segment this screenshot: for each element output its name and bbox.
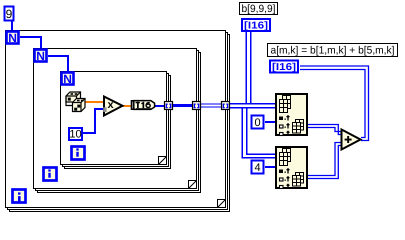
label b[9,9,9] — [240, 3, 278, 16]
wire branch down to index node 2 (3D array) — [242, 107, 244, 159]
wire multiply to I16 (orange scalar) — [122, 105, 131, 107]
wire dice to multiply (orange scalar) — [84, 101, 104, 103]
svg-text:9: 9 — [6, 7, 13, 21]
svg-text:x: x — [107, 99, 114, 111]
svg-text:4: 4 — [254, 162, 260, 174]
wire index node 1 to add (2D array) — [308, 125, 341, 135]
indicator [I16] for a — [270, 61, 298, 74]
wire 9 to N1 — [11, 20, 13, 30]
constant 10 — [69, 128, 82, 141]
add node — [342, 130, 361, 150]
for loop 3 (inner) stacked sheets — [63, 74, 171, 169]
multiply node — [103, 97, 122, 116]
page curl loop 1 — [218, 200, 226, 208]
page curl loop 2 — [189, 181, 197, 189]
I16 conversion node — [131, 100, 155, 110]
count terminal N1 — [7, 31, 19, 45]
svg-text:N: N — [36, 49, 45, 63]
wire N2 to N3 — [48, 55, 69, 57]
wire index node 2 to add (2D array) — [308, 143, 341, 179]
iteration terminal i3 — [72, 147, 85, 160]
svg-text:b[9,9,9]: b[9,9,9] — [242, 3, 276, 15]
2D output grid icon — [293, 173, 304, 187]
index terminal row 2 — [280, 124, 290, 129]
for loop 1 (outer) stacked sheets — [8, 33, 230, 212]
for loop 2 (middle) frame — [34, 49, 197, 189]
count terminal N2 — [35, 49, 47, 63]
for loop 2 (middle) stacked sheets — [36, 51, 201, 193]
index terminal row 2 — [280, 177, 290, 182]
3D array grid icon — [280, 149, 291, 166]
wire N1 to N2 — [20, 36, 42, 38]
svg-text:[I16]: [I16] — [272, 62, 296, 73]
constant 9 — [5, 7, 14, 22]
tunnel on loop 3 — [165, 102, 173, 110]
index terminal row 3 — [280, 184, 290, 189]
svg-text:[I16]: [I16] — [244, 21, 268, 32]
index terminal row 1 — [279, 169, 289, 174]
for loop 1 (outer) frame — [6, 31, 226, 208]
label a[m,k] formula — [268, 44, 398, 57]
index terminal row 3 — [280, 131, 290, 136]
wire branch up to b indicator (3D array) — [246, 32, 248, 105]
index array node 1 — [276, 94, 307, 136]
random number dice icon — [66, 92, 85, 112]
svg-text:0: 0 — [254, 117, 260, 129]
2D output grid icon — [293, 120, 304, 134]
3D array grid icon — [280, 96, 291, 113]
index terminal row 1 — [279, 116, 289, 121]
tunnel on loop 2 — [193, 102, 201, 110]
constant 4 — [252, 161, 264, 175]
wire tunnel1 to tunnel2 (1D array) — [168, 104, 197, 107]
wire tunnel2 to tunnel3 (2D array) — [197, 103, 226, 104]
index array node 2 — [276, 147, 307, 189]
iteration terminal i2 — [44, 168, 57, 181]
svg-text:N: N — [8, 31, 17, 45]
wire add to a[m,k] indicator (2D array) — [300, 66, 369, 141]
for loop 3 (inner) frame — [61, 72, 167, 165]
constant 0 — [252, 116, 264, 130]
coercion dot — [103, 107, 106, 112]
iteration terminal i1 — [13, 190, 26, 203]
wire 10 to multiply — [83, 132, 96, 134]
svg-text:10: 10 — [69, 129, 81, 141]
indicator [I16] for b — [242, 19, 270, 32]
wire tunnel3 to index nodes (3D array) — [226, 103, 275, 105]
count terminal N3 — [62, 72, 74, 86]
wire 0 to index node 1 — [265, 121, 275, 123]
page curl loop 3 — [159, 157, 167, 165]
svg-text:N: N — [63, 72, 72, 86]
wire 4 to index node 2 — [265, 166, 275, 168]
wire I16 to tunnel1 (scalar) — [155, 105, 168, 107]
svg-text:a[m,k] = b[1,m,k] + b[5,m,k]: a[m,k] = b[1,m,k] + b[5,m,k] — [271, 45, 395, 57]
tunnel on loop 1 — [222, 102, 230, 110]
